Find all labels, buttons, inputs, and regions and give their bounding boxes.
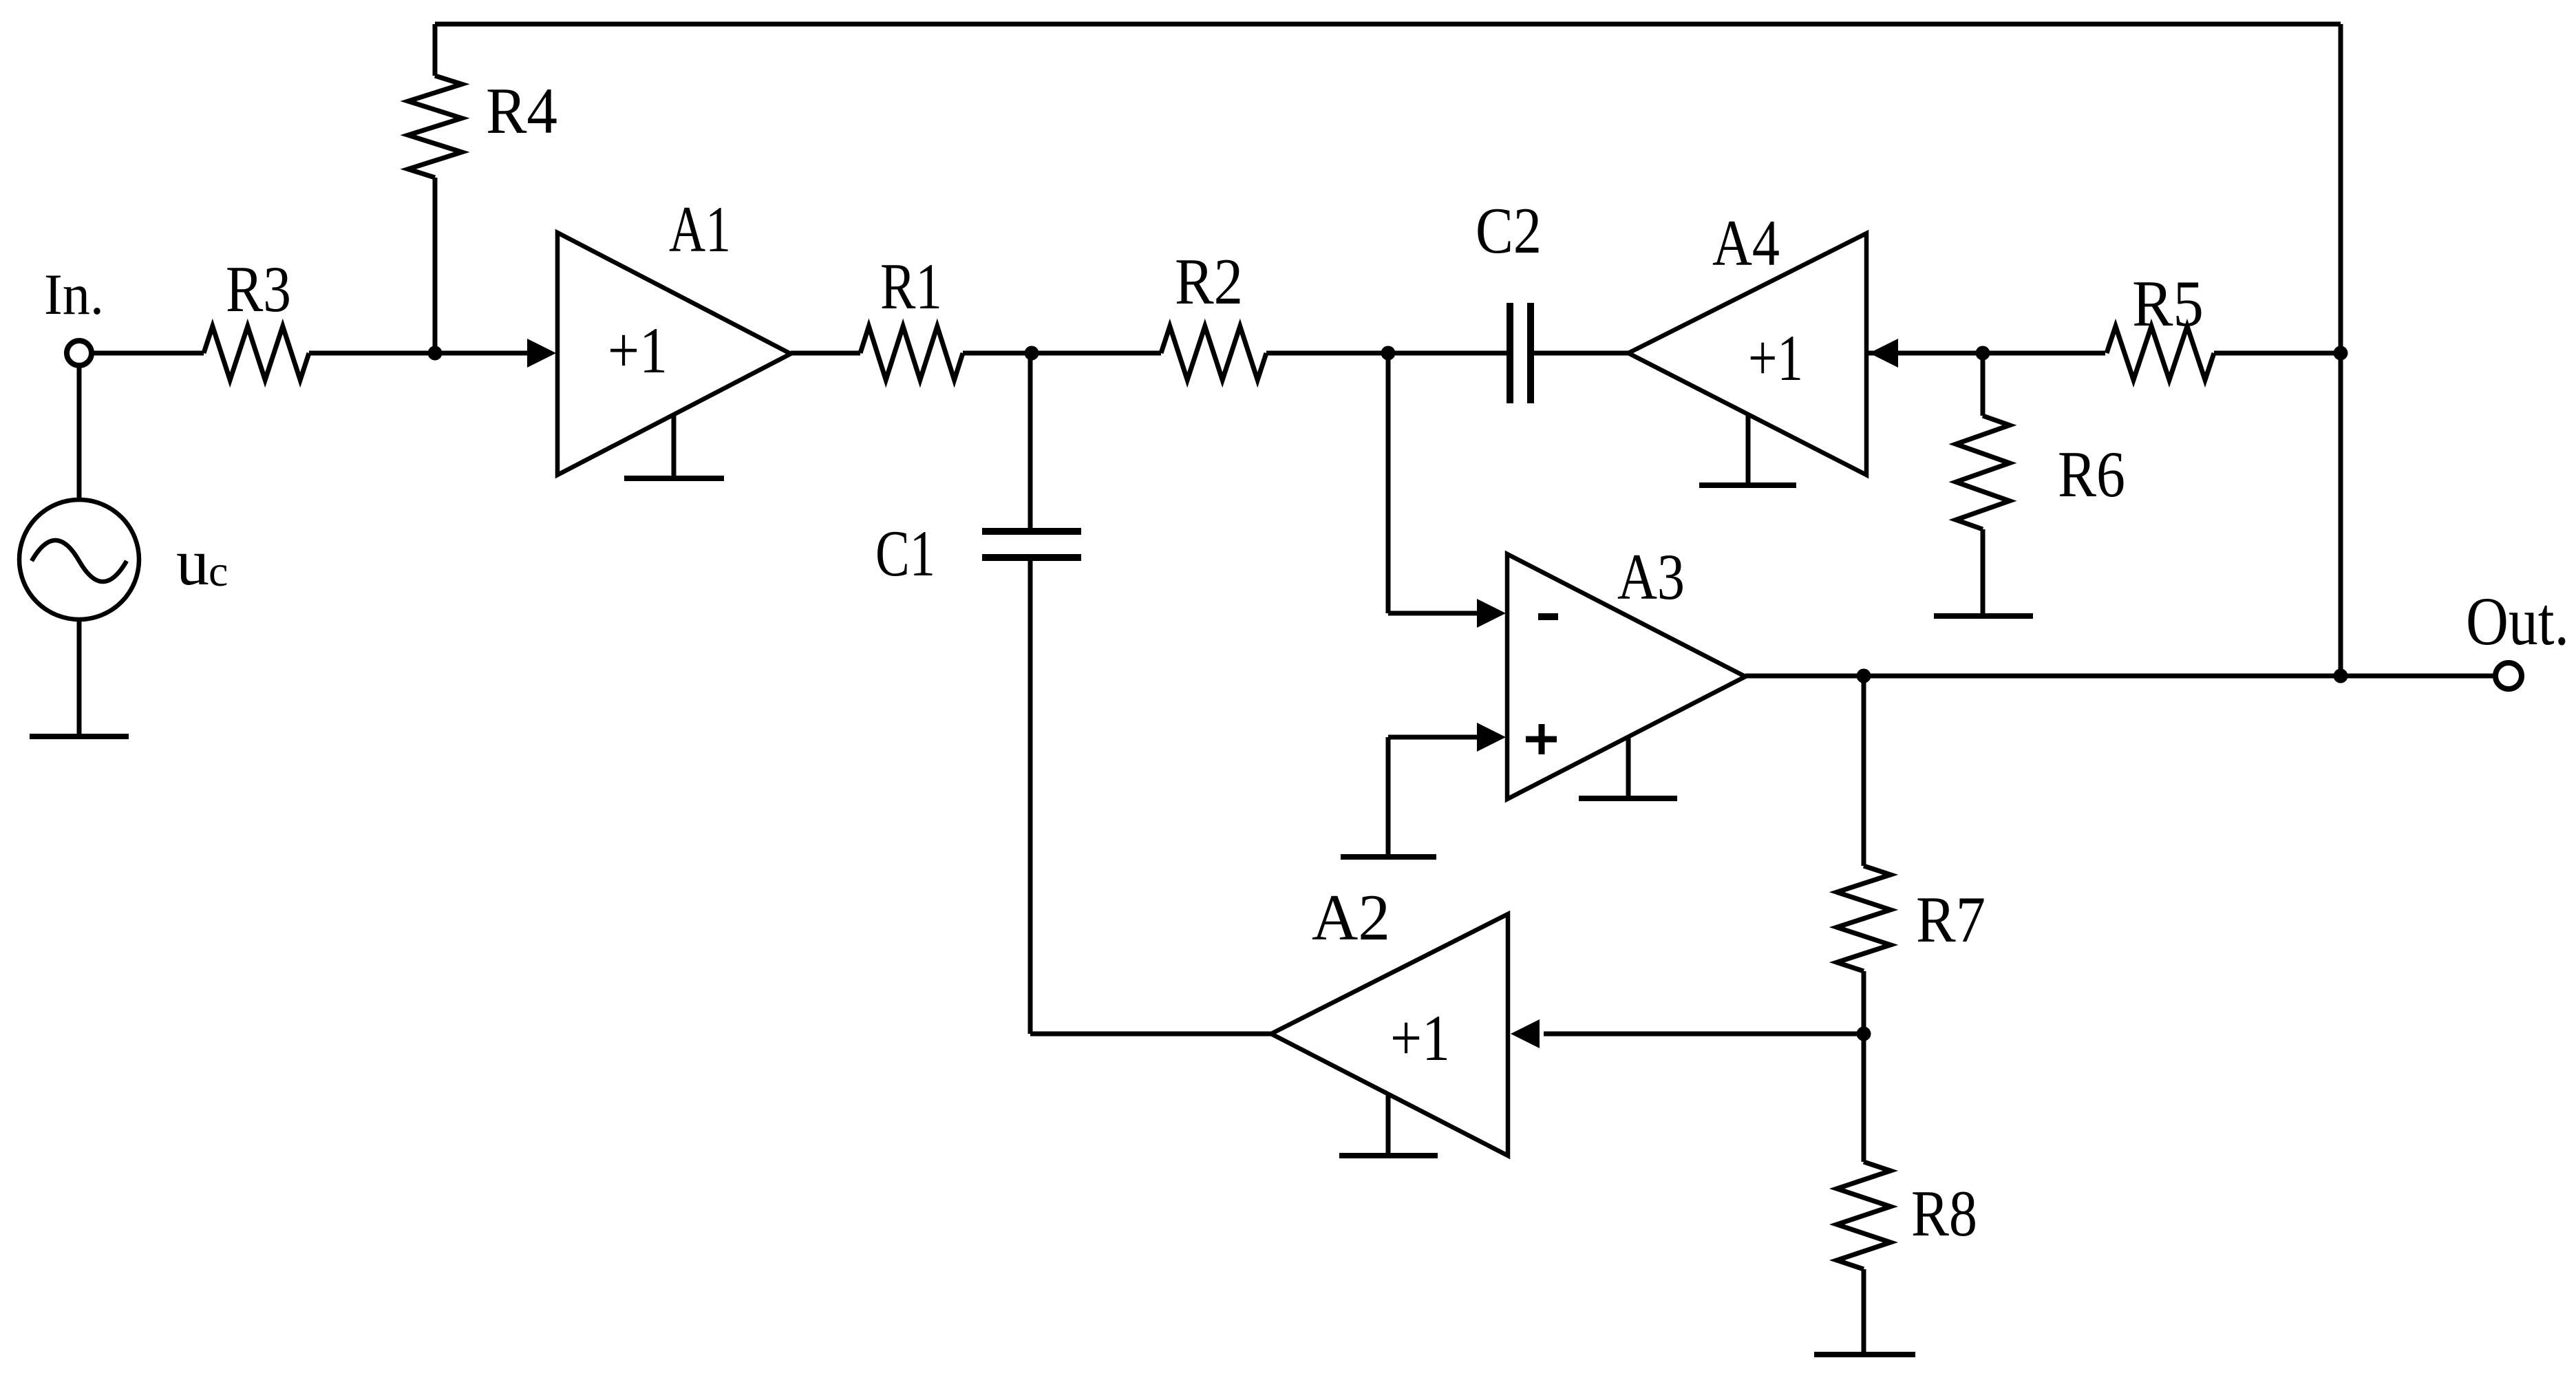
svg-text:R8: R8: [1911, 1177, 1977, 1250]
svg-text:R1: R1: [880, 250, 942, 323]
svg-text:A3: A3: [1617, 540, 1685, 613]
svg-text:A4: A4: [1712, 206, 1780, 279]
svg-text:C1: C1: [875, 517, 935, 590]
svg-text:R6: R6: [2058, 438, 2125, 511]
svg-text:+1: +1: [1390, 1001, 1450, 1074]
svg-text:+1: +1: [1748, 321, 1803, 394]
svg-text:Out.: Out.: [2466, 583, 2569, 659]
svg-text:R7: R7: [1916, 883, 1986, 956]
svg-text:A1: A1: [669, 193, 731, 266]
svg-text:+1: +1: [608, 314, 668, 387]
svg-text:A2: A2: [1312, 881, 1390, 954]
svg-text:R2: R2: [1175, 245, 1243, 318]
svg-text:In.: In.: [44, 262, 104, 327]
svg-text:R3: R3: [226, 253, 291, 326]
svg-text:C2: C2: [1476, 194, 1542, 267]
svg-text:c: c: [209, 546, 228, 595]
svg-text:u: u: [176, 525, 209, 599]
svg-text:R5: R5: [2132, 267, 2204, 340]
svg-text:R4: R4: [486, 74, 557, 147]
